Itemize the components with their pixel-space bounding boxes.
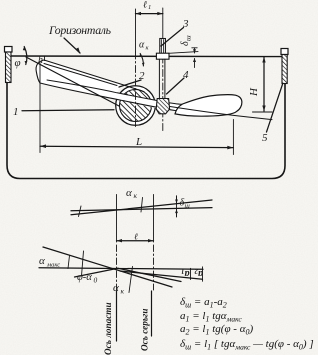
svg-text:α: α	[139, 40, 145, 51]
horizontal line	[39, 268, 203, 270]
axis verticals	[116, 195, 118, 243]
shackle block (item 4, hatched)	[156, 99, 169, 114]
shackle axis label underline	[151, 291, 153, 336]
dimension L	[40, 146, 233, 147]
alpha-max line	[43, 247, 172, 287]
shim gap delta-sh leader and dimension	[169, 52, 199, 54]
svg-text:1: 1	[181, 267, 185, 275]
long under-blade line to the right	[157, 105, 272, 120]
link rods from flange down to shackle	[158, 59, 160, 98]
blade axis vertical (dash-dot)	[116, 245, 118, 290]
svg-text:Горизонталь: Горизонталь	[48, 23, 112, 37]
angle alpha-k marker	[141, 198, 143, 213]
dimension H	[263, 57, 265, 111]
right ruler hatched bar	[282, 55, 287, 84]
svg-text:4: 4	[183, 69, 189, 81]
svg-text:H: H	[248, 87, 260, 97]
pin flange	[156, 53, 169, 59]
leader and label 1	[22, 110, 114, 111]
svg-text:0: 0	[94, 276, 98, 285]
delta-sh gap arrows	[176, 197, 178, 204]
svg-text:5: 5	[262, 132, 268, 144]
blade chord line M1	[71, 200, 212, 215]
blade outer wedge with rounded tip	[175, 95, 242, 116]
svg-text:φ: φ	[15, 57, 21, 69]
stand frame (rounded tank outline)	[7, 82, 285, 179]
svg-text:a2 = l1 tg(φ - α0): a2 = l1 tg(φ - α0)	[180, 323, 253, 337]
horizontal reference line	[11, 55, 282, 58]
shackle axis vertical (dash-dot)	[153, 245, 155, 290]
leader from ruler to label 5	[267, 84, 283, 132]
svg-text:α: α	[39, 255, 45, 267]
leader to horizontal line	[64, 38, 80, 53]
svg-text:α: α	[126, 187, 132, 199]
svg-text:ℓ: ℓ	[134, 232, 138, 242]
dimension l1	[136, 13, 163, 15]
svg-text:1: 1	[148, 4, 151, 11]
axis name: Ось лопасти	[103, 302, 113, 355]
svg-text:2: 2	[194, 267, 199, 275]
svg-text:макс: макс	[46, 262, 60, 269]
hub centre line (vertical, solid then dash-dot)	[135, 9, 137, 52]
horizontal line M2	[71, 208, 212, 211]
blade axis line (steep, vertex to hub)	[26, 57, 119, 106]
blade root wedge (item 1)	[36, 60, 121, 93]
left ruler hatched bar	[6, 52, 12, 83]
svg-text:h: h	[38, 55, 43, 66]
svg-text:ш: ш	[184, 35, 193, 41]
blade axis label underline	[116, 291, 118, 341]
dimension l between axes	[117, 240, 154, 242]
label a1 (rotated)	[181, 267, 190, 279]
svg-text:Ось серьги: Ось серьги	[140, 308, 150, 351]
hub support drum (outer circle)	[116, 86, 156, 126]
phi-alpha0 line	[75, 268, 119, 277]
blade mid band (white fill over hub)	[40, 79, 190, 112]
right ruler cap	[281, 49, 288, 55]
svg-text:1: 1	[13, 106, 19, 118]
svg-text:ш: ш	[185, 202, 191, 210]
blade upper band edge across hub	[47, 80, 183, 104]
blade root top edge	[44, 60, 144, 92]
angle ticks	[68, 256, 70, 269]
label a2 (rotated)	[194, 267, 203, 279]
svg-text:к: к	[121, 287, 125, 296]
blade lower edge (root to waist)	[40, 83, 193, 112]
svg-text:ℓ: ℓ	[143, 1, 147, 11]
svg-text:Ось лопасти: Ось лопасти	[103, 302, 113, 355]
svg-text:к: к	[134, 191, 138, 200]
pin (item 3) body	[160, 39, 166, 54]
svg-text:φ-α: φ-α	[77, 272, 92, 283]
pin centre line (vertical, solid then dash-dot)	[162, 8, 164, 40]
blade root end cap	[36, 60, 44, 83]
blade root second top edge	[44, 64, 117, 86]
angle alpha-k arc arrow near pin	[140, 54, 143, 67]
angle phi arc arrow	[24, 47, 27, 65]
hub hatched disc	[120, 90, 152, 122]
a2 line	[120, 271, 203, 279]
left ruler cap	[5, 47, 13, 53]
axis name: Ось серьги	[140, 308, 150, 351]
svg-text:L: L	[135, 136, 142, 148]
